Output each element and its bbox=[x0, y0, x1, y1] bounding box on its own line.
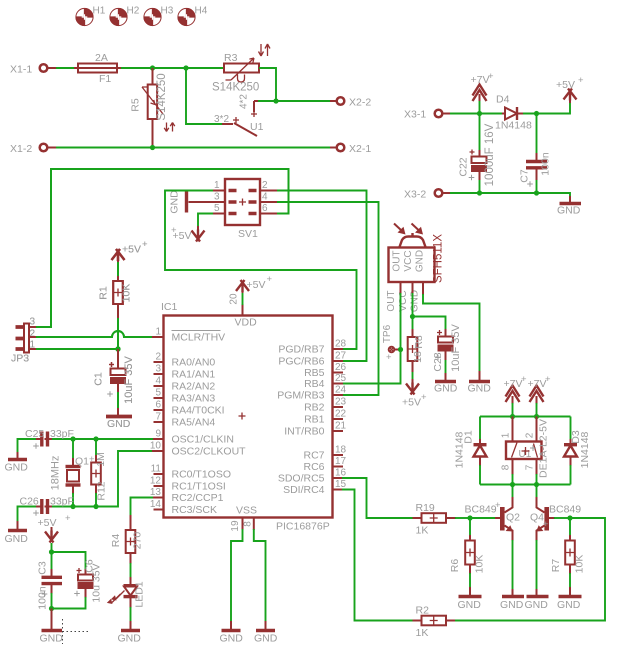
svg-text:GND: GND bbox=[557, 205, 581, 217]
svg-text:28: 28 bbox=[335, 339, 347, 350]
svg-text:C22: C22 bbox=[458, 157, 470, 176]
svg-text:+: + bbox=[386, 352, 392, 363]
svg-text:23: 23 bbox=[335, 397, 347, 408]
diode D3 1N4148 bbox=[564, 417, 591, 485]
supply +5V (R1 top) bbox=[112, 239, 149, 262]
svg-text:18: 18 bbox=[412, 351, 424, 363]
svg-text:RA2/AN2: RA2/AN2 bbox=[172, 381, 216, 393]
svg-text:18MHz: 18MHz bbox=[50, 456, 62, 491]
svg-text:GND: GND bbox=[415, 250, 426, 272]
svg-text:10K: 10K bbox=[474, 555, 486, 574]
svg-text:24: 24 bbox=[335, 385, 347, 396]
junction node C22 bottom bbox=[477, 190, 482, 195]
pad X2-1 bbox=[330, 143, 371, 155]
svg-text:1: 1 bbox=[155, 327, 161, 338]
wire Q4 base to junction bbox=[549, 517, 570, 519]
pad X1-1 bbox=[10, 64, 47, 76]
capacitor C1 10uF 35V bbox=[93, 349, 136, 408]
varistor R3 S14K250 bbox=[212, 44, 270, 94]
IR receiver U2 SFH511X bbox=[389, 233, 445, 283]
svg-text:RB4: RB4 bbox=[304, 378, 325, 390]
svg-text:X3-1: X3-1 bbox=[404, 109, 426, 121]
svg-text:270: 270 bbox=[132, 532, 144, 550]
svg-text:1N4148: 1N4148 bbox=[454, 431, 466, 468]
diode D1 1N4148 bbox=[454, 417, 487, 485]
wire JP3 pin1 to R1/C1 node bbox=[29, 348, 118, 350]
svg-text:+7V: +7V bbox=[528, 378, 547, 390]
pin 16 SDO/RC5 bbox=[278, 468, 347, 485]
svg-text:+5V: +5V bbox=[556, 79, 575, 91]
svg-text:PGD/RB7: PGD/RB7 bbox=[278, 344, 324, 356]
wire SFH OUT to IC1 pin25 bbox=[333, 282, 401, 384]
junction node Q1 top bbox=[70, 436, 75, 441]
switch contact U1 bbox=[214, 94, 264, 136]
ground GND (Q2) bbox=[500, 540, 524, 611]
junction node C3/C6 top bbox=[49, 549, 54, 554]
svg-text:+: + bbox=[495, 500, 501, 511]
svg-text:14: 14 bbox=[150, 499, 162, 510]
svg-text:LED1: LED1 bbox=[134, 581, 146, 607]
junction node switch branch bbox=[183, 65, 188, 70]
junction node Q2 base/R6 bbox=[467, 515, 472, 520]
svg-text:RA3/AN3: RA3/AN3 bbox=[172, 393, 216, 405]
supply +5V (C3/C6, down) bbox=[38, 513, 72, 543]
svg-text:X2-1: X2-1 bbox=[349, 143, 371, 155]
svg-text:5: 5 bbox=[214, 203, 220, 214]
svg-text:2: 2 bbox=[262, 180, 268, 191]
svg-text:SV1: SV1 bbox=[238, 228, 258, 240]
cursor crosshair mark bbox=[63, 619, 91, 644]
svg-text:GND: GND bbox=[434, 383, 458, 395]
capacitor C3 100n bbox=[37, 552, 63, 610]
wire SV1 pin4 to IC1 pin24 bbox=[277, 202, 379, 395]
connector JP3 bbox=[11, 317, 36, 365]
wire JP3 pin1 to R1/C1 node bbox=[29, 348, 118, 350]
junction node relay pin2 top bbox=[534, 414, 539, 419]
svg-text:C26: C26 bbox=[20, 496, 39, 508]
svg-text:X3-2: X3-2 bbox=[404, 189, 426, 201]
svg-text:GND: GND bbox=[468, 383, 492, 395]
IR arrows into SFH511X bbox=[394, 224, 423, 235]
svg-text:22: 22 bbox=[335, 409, 347, 420]
op-amp/mcu IC1 PIC16876P body bbox=[161, 301, 333, 533]
svg-text:Q1: Q1 bbox=[75, 456, 89, 468]
svg-text:21: 21 bbox=[335, 421, 347, 432]
wire D4 to +5V corner bbox=[523, 101, 570, 114]
svg-text:BC849: BC849 bbox=[549, 504, 581, 516]
svg-text:100n: 100n bbox=[37, 586, 49, 610]
svg-text:10: 10 bbox=[150, 441, 162, 452]
wire IC1 pin15 to R2 bbox=[333, 490, 413, 621]
capacitor C1 10uF 35V bbox=[93, 349, 136, 408]
junction node R1/C1 bbox=[115, 346, 120, 351]
svg-text:10uF 35V: 10uF 35V bbox=[123, 355, 135, 403]
svg-text:RA5/AN4: RA5/AN4 bbox=[172, 417, 216, 429]
svg-text:9: 9 bbox=[155, 429, 161, 440]
svg-text:C1: C1 bbox=[93, 372, 105, 386]
svg-text:TP6: TP6 bbox=[382, 324, 393, 343]
svg-text:SFH511X: SFH511X bbox=[433, 234, 445, 283]
junction node C3/C6 bottom bbox=[49, 606, 54, 611]
junction node TP6/OUT bbox=[398, 347, 403, 352]
pin 18 RC7 bbox=[303, 445, 346, 462]
ground GND (LED1) bbox=[118, 621, 142, 645]
wire JP3 pin3 to SV1 pin6 bbox=[29, 169, 289, 327]
svg-text:RB1: RB1 bbox=[304, 414, 325, 426]
svg-text:GND: GND bbox=[107, 418, 131, 430]
svg-text:1K: 1K bbox=[416, 627, 429, 639]
svg-text:RC1/T1OSI: RC1/T1OSI bbox=[172, 481, 226, 493]
svg-text:X1-1: X1-1 bbox=[10, 64, 32, 76]
svg-text:GND: GND bbox=[458, 599, 482, 611]
pin 9 OSC1/CLKIN bbox=[154, 429, 234, 446]
svg-text:R8: R8 bbox=[413, 335, 425, 349]
junction node R12 bottom bbox=[93, 504, 98, 509]
supply +5V (VDD) bbox=[236, 274, 273, 293]
hole H2 bbox=[110, 6, 140, 27]
pin 26 RB5 bbox=[304, 362, 346, 379]
svg-text:PGC/RB6: PGC/RB6 bbox=[278, 356, 324, 368]
svg-text:2: 2 bbox=[525, 432, 536, 438]
supply +5V (R8 bottom, down) bbox=[402, 379, 427, 409]
svg-text:+7V: +7V bbox=[504, 378, 523, 390]
svg-text:S14K250: S14K250 bbox=[156, 73, 168, 120]
junction node relay pin8 bottom bbox=[510, 482, 515, 487]
svg-text:GND: GND bbox=[220, 633, 244, 645]
ground GND (R6) bbox=[458, 587, 482, 611]
svg-text:+7V: +7V bbox=[471, 74, 490, 86]
svg-text:25: 25 bbox=[335, 373, 347, 384]
svg-text:+: + bbox=[421, 392, 427, 403]
pin 7 RA5/AN4 bbox=[154, 412, 216, 429]
pin 20 VDD bbox=[229, 292, 243, 316]
svg-text:RC6: RC6 bbox=[303, 461, 324, 473]
svg-text:RC0/T1OSO: RC0/T1OSO bbox=[172, 469, 232, 481]
svg-text:15: 15 bbox=[335, 479, 347, 490]
svg-text:+: + bbox=[578, 75, 584, 86]
svg-text:GND: GND bbox=[500, 599, 524, 611]
ground GND (C28) bbox=[434, 373, 458, 395]
svg-text:H1: H1 bbox=[93, 6, 106, 17]
junction node relay pin7 bottom bbox=[534, 482, 539, 487]
junction node C7 bottom bbox=[534, 190, 539, 195]
svg-text:MCLR/THV: MCLR/THV bbox=[172, 332, 226, 344]
pin 19 VSS bbox=[230, 518, 243, 623]
svg-text:6: 6 bbox=[262, 203, 268, 214]
svg-text:13: 13 bbox=[150, 487, 162, 498]
svg-text:R3: R3 bbox=[224, 52, 238, 64]
pin 27 PGC/RB6 bbox=[278, 351, 346, 368]
svg-text:GND: GND bbox=[525, 599, 549, 611]
svg-text:GND: GND bbox=[40, 633, 64, 645]
svg-text:10u 35V: 10u 35V bbox=[91, 563, 103, 602]
svg-text:1: 1 bbox=[214, 180, 220, 191]
svg-text:OSC2/CLKOUT: OSC2/CLKOUT bbox=[172, 446, 247, 458]
svg-text:+: + bbox=[142, 239, 148, 250]
resistor R6 10K bbox=[449, 518, 486, 588]
ground GND (C1) bbox=[106, 408, 132, 430]
ground GND (SFH) bbox=[468, 371, 492, 395]
svg-text:11: 11 bbox=[151, 464, 162, 475]
wire relay pin8 to Q2 collector bbox=[512, 474, 514, 497]
svg-text:RC3/SCK: RC3/SCK bbox=[172, 504, 218, 516]
capacitor C6 10u 35V bbox=[52, 552, 103, 609]
svg-text:RA0/AN0: RA0/AN0 bbox=[172, 357, 216, 369]
svg-text:GND: GND bbox=[5, 462, 29, 474]
connector JP3 bbox=[11, 317, 36, 365]
wire X3-2 to GND bbox=[443, 193, 570, 197]
pin 1 MCLR/THV bbox=[154, 327, 226, 344]
svg-text:GND: GND bbox=[254, 633, 278, 645]
hole H4 bbox=[178, 6, 208, 27]
pin 11 RC0/T1OSO bbox=[151, 464, 231, 481]
wire SFH VCC to R8/C28 node bbox=[412, 282, 414, 317]
svg-text:+: + bbox=[521, 374, 527, 385]
svg-text:20: 20 bbox=[229, 293, 240, 305]
junction node X2-2 bbox=[273, 98, 278, 103]
svg-text:C7: C7 bbox=[519, 169, 531, 183]
svg-text:RC7: RC7 bbox=[303, 450, 324, 462]
svg-text:33pF: 33pF bbox=[50, 496, 74, 508]
svg-text:GND: GND bbox=[5, 533, 29, 545]
resistor R19 1K bbox=[413, 502, 471, 537]
junction node Q4 base/R7 bbox=[567, 515, 572, 520]
svg-text:BC849: BC849 bbox=[465, 504, 497, 516]
LED LED1 bbox=[107, 577, 146, 622]
wire SFH GND to ground bbox=[423, 282, 480, 372]
resistor R2 1K bbox=[413, 518, 606, 639]
ground GND (C3/C6) bbox=[40, 609, 64, 645]
svg-text:4*2: 4*2 bbox=[239, 94, 250, 109]
supply +7V (top) bbox=[471, 71, 495, 114]
svg-text:+: + bbox=[545, 374, 551, 385]
origin marks bbox=[33, 175, 533, 597]
wire junction to switch pivot bbox=[254, 101, 276, 112]
svg-text:1K: 1K bbox=[416, 525, 429, 537]
svg-text:19: 19 bbox=[230, 520, 241, 532]
ground GND (SV1 pin3) bbox=[169, 190, 214, 214]
svg-text:17: 17 bbox=[335, 456, 347, 467]
pad X2-2 bbox=[330, 97, 371, 109]
svg-text:RA1/AN1: RA1/AN1 bbox=[172, 369, 216, 381]
svg-text:C3: C3 bbox=[37, 561, 49, 575]
svg-text:8: 8 bbox=[501, 464, 512, 470]
pin 8 VSS bbox=[243, 518, 266, 623]
wire OSC2 rail (pin10) bbox=[52, 451, 164, 507]
svg-text:10K: 10K bbox=[574, 555, 586, 574]
svg-text:+: + bbox=[543, 519, 549, 530]
pin 3 RA1/AN1 bbox=[154, 364, 216, 381]
svg-text:DE1A-L2-5V: DE1A-L2-5V bbox=[538, 419, 550, 478]
ground GND (X3) bbox=[557, 196, 581, 217]
svg-text:GND: GND bbox=[557, 599, 581, 611]
svg-text:U1: U1 bbox=[250, 121, 264, 133]
svg-text:VSS: VSS bbox=[236, 505, 257, 517]
ground GND (C1) bbox=[106, 408, 132, 430]
wire F1 to R3 bbox=[121, 67, 224, 69]
varistor R5 S14K250 bbox=[130, 68, 175, 148]
resistor R8 18 bbox=[408, 317, 425, 382]
svg-text:2A: 2A bbox=[95, 52, 108, 64]
svg-text:OUT: OUT bbox=[392, 250, 403, 271]
pin 5 RA3/AN3 bbox=[154, 388, 216, 405]
pin 21 INT/RB0 bbox=[284, 421, 346, 438]
pin 25 RB4 bbox=[304, 373, 346, 390]
svg-text:RA4/T0CKI: RA4/T0CKI bbox=[172, 405, 225, 417]
svg-text:R7: R7 bbox=[550, 559, 562, 573]
supply +5V (top right) bbox=[556, 75, 584, 103]
svg-text:H3: H3 bbox=[161, 6, 174, 17]
svg-text:+5V: +5V bbox=[122, 244, 141, 256]
svg-text:+: + bbox=[267, 274, 273, 285]
svg-text:10uF 35V: 10uF 35V bbox=[450, 323, 462, 371]
supply +7V (relay pin1) bbox=[504, 374, 528, 417]
svg-text:JP3: JP3 bbox=[11, 353, 29, 365]
svg-text:1000uF 16V: 1000uF 16V bbox=[484, 123, 496, 186]
junction node R5 bottom bbox=[150, 145, 155, 150]
svg-text:18: 18 bbox=[335, 445, 347, 456]
svg-text:PIC16876P: PIC16876P bbox=[276, 521, 330, 533]
svg-text:GND: GND bbox=[169, 190, 181, 214]
pin 4 RA2/AN2 bbox=[154, 376, 216, 393]
supply +7V (relay pin2) bbox=[528, 374, 552, 417]
svg-text:OSC1/CLKIN: OSC1/CLKIN bbox=[172, 434, 234, 446]
junction node relay pin1 top bbox=[510, 414, 515, 419]
junction node Q1 bottom bbox=[70, 504, 75, 509]
diode D4 1N4148 bbox=[495, 94, 532, 132]
wire +5V to C3/C6 bbox=[51, 543, 53, 552]
wire X1-1 to F1 bbox=[48, 67, 78, 69]
transistor Q2 BC849 bbox=[465, 497, 521, 541]
svg-text:D4: D4 bbox=[496, 94, 510, 106]
pin 22 RB1 bbox=[304, 409, 346, 426]
pin 17 RC6 bbox=[303, 456, 346, 473]
wire bottom rail D1-D3 bbox=[480, 484, 571, 486]
wire JP3 pin2 to IC1 MCLR (hop over R1) bbox=[29, 331, 164, 337]
capacitor C28 10uF 35V bbox=[413, 317, 463, 375]
svg-text:RC2/CCP1: RC2/CCP1 bbox=[172, 492, 224, 504]
pin 15 SDI/RC4 bbox=[283, 479, 346, 496]
wire X3-1 to D4 bbox=[443, 113, 502, 115]
svg-text:R2: R2 bbox=[416, 605, 430, 617]
pin 2 RA0/AN0 bbox=[154, 352, 216, 369]
pad X3-2 bbox=[404, 189, 442, 201]
resistor R1 10K bbox=[98, 262, 133, 349]
svg-text:100n: 100n bbox=[540, 152, 552, 176]
svg-text:4: 4 bbox=[262, 192, 268, 203]
junction node R1/C1 bbox=[115, 346, 120, 351]
wire OSC1 rail (pin9) bbox=[52, 438, 164, 440]
svg-text:+: + bbox=[488, 71, 494, 82]
svg-text:1M: 1M bbox=[95, 452, 107, 467]
wire JP3 pin2 to IC1 MCLR (hop over R1) bbox=[29, 331, 164, 337]
wire junction to Q2 base bbox=[470, 517, 501, 519]
resistor R12 1M bbox=[91, 439, 107, 507]
svg-text:1N4148: 1N4148 bbox=[579, 431, 591, 468]
svg-text:F1: F1 bbox=[99, 73, 111, 85]
junction node C7 top bbox=[534, 111, 539, 116]
ground GND (Q4) bbox=[525, 540, 549, 611]
svg-text:27: 27 bbox=[335, 351, 347, 362]
svg-text:Q2: Q2 bbox=[506, 512, 520, 524]
resistor R1 10K bbox=[98, 262, 133, 349]
svg-text:3: 3 bbox=[214, 192, 220, 203]
pin 12 RC1/T1OSI bbox=[150, 476, 226, 493]
svg-text:3: 3 bbox=[30, 317, 36, 328]
svg-text:8: 8 bbox=[243, 521, 254, 527]
wire R3 to X2-2 junction bbox=[259, 68, 336, 101]
hole H1 bbox=[76, 6, 106, 27]
wire switch to X1-1 branch bbox=[186, 68, 233, 124]
fuse F1 2A bbox=[74, 52, 121, 85]
pin 23 RB2 bbox=[304, 397, 346, 414]
svg-text:H4: H4 bbox=[195, 6, 208, 17]
svg-text:OUT: OUT bbox=[386, 290, 397, 311]
svg-text:R4: R4 bbox=[110, 534, 122, 548]
svg-text:7: 7 bbox=[155, 412, 161, 423]
svg-text:R5: R5 bbox=[130, 98, 142, 112]
wire IC1 pin16 to R19 bbox=[333, 478, 413, 518]
ground GND (R7) bbox=[557, 587, 582, 611]
svg-text:GND: GND bbox=[118, 633, 142, 645]
pin 28 PGD/RB7 bbox=[278, 339, 346, 356]
svg-text:10K: 10K bbox=[121, 284, 133, 303]
pad X3-1 bbox=[404, 109, 442, 121]
svg-text:INT/RB0: INT/RB0 bbox=[284, 426, 324, 438]
svg-text:4: 4 bbox=[155, 376, 161, 387]
supply +5V (SV1 pin5, down) bbox=[171, 214, 213, 243]
svg-text:RB2: RB2 bbox=[304, 402, 325, 414]
capacitor C25 33pF bbox=[18, 428, 74, 453]
svg-text:33pF: 33pF bbox=[50, 428, 74, 440]
junction node VCC/R8/C28 bbox=[410, 314, 415, 319]
svg-text:X1-2: X1-2 bbox=[10, 143, 32, 155]
svg-text:R6: R6 bbox=[449, 559, 461, 573]
ground GND (C25) bbox=[5, 452, 29, 474]
svg-text:6: 6 bbox=[155, 400, 161, 411]
ground GND (pin8) bbox=[254, 621, 278, 645]
junction node +7V/C22 bbox=[477, 111, 482, 116]
wire IC1 pin13 to R4 bbox=[131, 498, 164, 517]
svg-text:5: 5 bbox=[155, 388, 161, 399]
junction node R12 top bbox=[93, 436, 98, 441]
svg-text:3: 3 bbox=[155, 364, 161, 375]
capacitor C26 33pF bbox=[18, 496, 74, 523]
wire top rail D1-D3 bbox=[480, 416, 571, 418]
svg-text:1: 1 bbox=[501, 432, 512, 438]
wire SV1 pin2 to IC1 pin27 bbox=[277, 191, 367, 362]
hole H3 bbox=[144, 6, 174, 27]
svg-text:+5V: +5V bbox=[38, 517, 57, 529]
svg-text:7: 7 bbox=[525, 464, 536, 470]
pin 13 RC2/CCP1 bbox=[150, 487, 224, 504]
pad X1-2 bbox=[10, 143, 47, 155]
transistor Q4 BC849 bbox=[530, 497, 581, 541]
svg-text:1N4148: 1N4148 bbox=[495, 120, 532, 132]
capacitor C7 100n bbox=[519, 114, 552, 194]
svg-text:X2-2: X2-2 bbox=[349, 97, 371, 109]
svg-text:SDI/RC4: SDI/RC4 bbox=[283, 484, 325, 496]
svg-text:SDO/RC5: SDO/RC5 bbox=[278, 473, 325, 485]
svg-text:+5V: +5V bbox=[402, 397, 421, 409]
svg-text:VCC: VCC bbox=[403, 250, 414, 271]
connector SV1 bbox=[213, 179, 277, 240]
ground GND (pin19) bbox=[220, 621, 244, 645]
svg-text:26: 26 bbox=[335, 362, 347, 373]
svg-text:PGM/RB3: PGM/RB3 bbox=[277, 390, 324, 402]
supply +5V (R1 top) bbox=[112, 239, 149, 262]
resistor R7 10K bbox=[550, 518, 586, 588]
